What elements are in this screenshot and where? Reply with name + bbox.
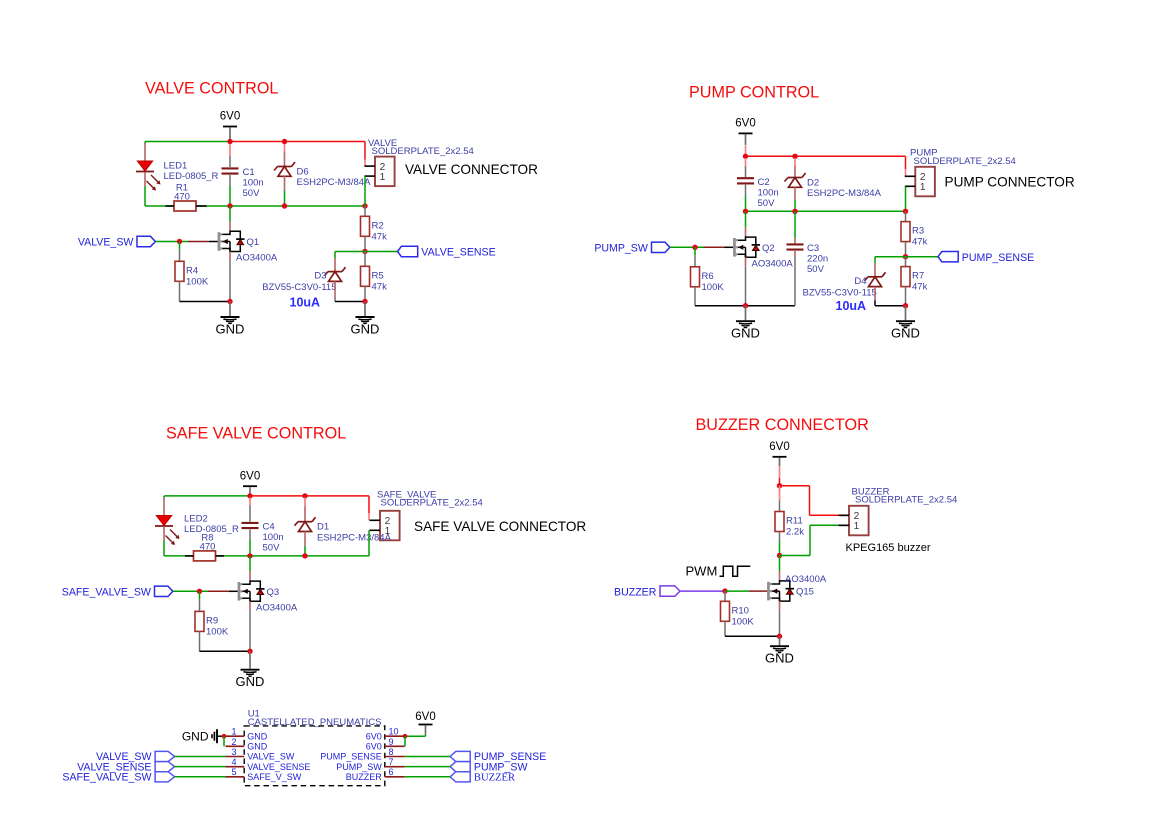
svg-text:50V: 50V (243, 188, 261, 199)
wire (875, 256, 906, 258)
LED LED2 (155, 514, 239, 546)
svg-text:AO3400A: AO3400A (785, 574, 827, 585)
resistor R3 (901, 222, 928, 248)
wire (724, 591, 726, 601)
diode D2 (785, 173, 882, 199)
wire (794, 158, 796, 166)
wire (405, 756, 451, 758)
wire (209, 241, 218, 243)
wire (229, 186, 231, 206)
svg-text:470: 470 (200, 541, 216, 552)
wire (725, 590, 749, 592)
net flag BUZZER (450, 772, 470, 782)
svg-text:100K: 100K (702, 282, 725, 293)
svg-text:100K: 100K (186, 276, 209, 287)
power 6V0 (769, 441, 789, 466)
transistor Q3 (238, 581, 298, 613)
wire (794, 166, 796, 178)
wire (304, 497, 306, 506)
wire (794, 238, 796, 244)
wire (749, 590, 767, 592)
wire (180, 301, 231, 303)
wire (405, 735, 426, 737)
wire (745, 196, 747, 211)
svg-text:C4: C4 (263, 522, 275, 533)
svg-text:6V0: 6V0 (735, 118, 755, 130)
svg-text:50V: 50V (758, 198, 776, 209)
IC U1 CASTELLATED_PNEUMATICS (231, 708, 398, 785)
wire (874, 263, 876, 277)
svg-text:SOLDERPLATE_2x2.54: SOLDERPLATE_2x2.54 (855, 495, 957, 506)
resistor R1 (174, 183, 196, 212)
wire (364, 236, 366, 251)
wire (304, 532, 306, 546)
svg-text:10: 10 (389, 727, 399, 737)
wire (156, 241, 188, 243)
wire (794, 256, 796, 306)
wire (874, 300, 876, 305)
wire (249, 601, 251, 610)
wire (405, 776, 451, 778)
svg-text:50V: 50V (263, 543, 281, 554)
svg-text:PUMP CONTROL: PUMP CONTROL (689, 84, 819, 102)
svg-text:GND: GND (247, 731, 268, 741)
wire (216, 555, 225, 557)
wire (779, 466, 781, 478)
wire (164, 495, 250, 497)
wire (874, 287, 876, 301)
wire (368, 530, 370, 556)
wire (334, 258, 336, 272)
svg-text:100K: 100K (206, 626, 229, 637)
wire (249, 541, 251, 556)
wire (145, 205, 365, 207)
svg-text:470: 470 (174, 192, 190, 203)
svg-text:VALVE_SW: VALVE_SW (247, 752, 295, 762)
junction (903, 209, 908, 214)
svg-text:Q2: Q2 (762, 243, 775, 254)
wire (188, 241, 209, 243)
connector PUMP (905, 148, 1016, 197)
wire (874, 257, 876, 263)
ground (891, 306, 920, 341)
wire (250, 495, 369, 497)
svg-text:47k: 47k (912, 282, 928, 293)
wire (229, 590, 238, 592)
wire (840, 524, 849, 526)
svg-text:ESH2PC-M3/84A: ESH2PC-M3/84A (297, 177, 372, 188)
resistor R11 (775, 512, 804, 538)
wire (694, 247, 696, 255)
power 6V0 (240, 470, 260, 494)
wire (364, 252, 366, 267)
wire (725, 246, 734, 248)
wire (144, 143, 146, 161)
svg-text:BUZZER: BUZZER (614, 586, 657, 598)
wire (779, 610, 781, 636)
svg-text:1: 1 (231, 727, 236, 737)
svg-text:R10: R10 (732, 605, 749, 616)
svg-text:Q15: Q15 (796, 587, 814, 598)
wire (404, 736, 406, 746)
wire (229, 156, 231, 167)
svg-text:PWM: PWM (686, 563, 718, 578)
resistor R7 (901, 267, 928, 293)
wire (199, 631, 201, 651)
junction (903, 303, 908, 308)
pin stub (226, 735, 245, 737)
net flag PUMP_SENSE (450, 751, 470, 761)
svg-text:GND: GND (247, 742, 268, 752)
junction (777, 553, 782, 558)
wire (185, 555, 194, 557)
wire (304, 546, 306, 556)
wire (229, 143, 231, 156)
junction (302, 493, 307, 498)
capacitor C2 (737, 177, 779, 209)
svg-text:7: 7 (389, 757, 394, 767)
wire (368, 513, 370, 520)
svg-text:GND: GND (891, 326, 920, 341)
junction (227, 203, 232, 208)
svg-text:10uA: 10uA (290, 296, 321, 310)
wire (745, 257, 747, 266)
resistor R8 (194, 532, 216, 561)
wire (779, 532, 781, 542)
svg-text:ESH2PC-M3/84A: ESH2PC-M3/84A (807, 188, 882, 199)
wire (163, 527, 165, 541)
wire (335, 251, 365, 253)
wire (368, 496, 370, 513)
junction (362, 299, 367, 304)
wire (810, 524, 840, 526)
svg-text:D6: D6 (297, 167, 309, 178)
wire (163, 496, 165, 498)
svg-text:SAFE VALVE CONNECTOR: SAFE VALVE CONNECTOR (414, 519, 586, 534)
junction (247, 553, 252, 558)
svg-text:VALVE CONNECTOR: VALVE CONNECTOR (405, 162, 538, 177)
svg-text:BUZZER: BUZZER (474, 773, 516, 784)
wire (229, 222, 231, 232)
wire (746, 155, 906, 157)
svg-text:BUZZER: BUZZER (346, 772, 383, 782)
wire (179, 281, 181, 301)
wire (780, 555, 811, 557)
wire (905, 156, 907, 169)
wire (905, 169, 907, 176)
junction (903, 254, 908, 259)
wire (284, 152, 286, 167)
wire (694, 287, 696, 306)
svg-text:SAFE_V_SW: SAFE_V_SW (247, 772, 302, 782)
junction (247, 649, 252, 654)
svg-text:100K: 100K (732, 616, 755, 627)
wire (875, 305, 906, 307)
pin stub (226, 756, 245, 758)
wire (810, 514, 841, 516)
svg-text:6V0: 6V0 (366, 742, 382, 752)
connector BUZZER (839, 486, 958, 535)
svg-text:Q1: Q1 (247, 237, 260, 248)
pin stub (385, 766, 405, 768)
wire (779, 486, 781, 501)
svg-text:GND: GND (351, 322, 380, 337)
net flag PUMP_SW (450, 762, 470, 772)
wire (745, 158, 747, 166)
junction (743, 154, 748, 159)
wire (794, 251, 796, 256)
wire (179, 242, 181, 250)
svg-text:BUZZER CONNECTOR: BUZZER CONNECTOR (696, 416, 869, 434)
net flag SAFE_VALVE_SW (62, 586, 173, 598)
svg-text:R2: R2 (372, 220, 384, 231)
svg-text:D2: D2 (807, 178, 819, 189)
wire (179, 249, 181, 261)
net flag VALVE_SW (78, 236, 156, 248)
resistor R10 (721, 601, 755, 627)
transistor Q1 (218, 231, 278, 263)
net flag VALVE_SENSE (398, 246, 496, 258)
wire (704, 246, 725, 248)
svg-text:SAFE_VALVE_SW: SAFE_VALVE_SW (62, 587, 151, 599)
junction (197, 589, 202, 594)
junction (302, 553, 307, 558)
junction (403, 734, 408, 739)
svg-text:R11: R11 (786, 516, 803, 527)
wire (229, 252, 231, 261)
wire (199, 591, 201, 599)
svg-text:SAFE VALVE CONTROL: SAFE VALVE CONTROL (166, 425, 346, 443)
wire (249, 556, 251, 571)
svg-text:R7: R7 (912, 271, 924, 282)
wire (173, 590, 208, 592)
wire (905, 257, 907, 267)
wire (229, 261, 231, 302)
wire (196, 205, 207, 207)
diode D1 (295, 517, 392, 543)
svg-text:KPEG165 buzzer: KPEG165 buzzer (846, 542, 931, 554)
svg-text:AO3400A: AO3400A (236, 253, 278, 264)
svg-text:R9: R9 (206, 615, 218, 626)
svg-text:AO3400A: AO3400A (752, 258, 794, 269)
junction (777, 483, 782, 488)
svg-text:R5: R5 (372, 270, 384, 281)
wire (335, 301, 365, 303)
pin stub (385, 756, 405, 758)
svg-text:C1: C1 (243, 167, 255, 178)
wire (779, 541, 781, 556)
junction (222, 734, 227, 739)
svg-text:3: 3 (231, 747, 236, 757)
ground (765, 636, 794, 665)
svg-text:C2: C2 (758, 177, 770, 188)
svg-text:2.2k: 2.2k (786, 527, 804, 538)
svg-text:D3: D3 (314, 271, 326, 282)
svg-text:R6: R6 (702, 271, 714, 282)
junction (227, 299, 232, 304)
wire (144, 172, 146, 186)
wire (779, 501, 781, 512)
diode D3 (262, 267, 345, 293)
wire (779, 556, 781, 572)
power 6V0 (415, 711, 435, 734)
svg-text:6V0: 6V0 (366, 731, 382, 741)
wire (780, 485, 810, 487)
svg-text:VALVE_SENSE: VALVE_SENSE (421, 247, 495, 259)
wire (725, 635, 780, 637)
svg-text:VALVE_SENSE: VALVE_SENSE (247, 762, 310, 772)
wire (364, 206, 366, 216)
ground (216, 302, 245, 337)
wire (809, 486, 811, 516)
wire (249, 571, 251, 581)
svg-text:VALVE CONTROL: VALVE CONTROL (145, 80, 278, 98)
net flag PUMP_SW (594, 242, 670, 254)
wire (840, 514, 849, 516)
wire (208, 590, 229, 592)
wire (906, 256, 939, 258)
svg-text:1: 1 (920, 182, 926, 193)
wire (144, 186, 146, 206)
wire (229, 175, 231, 186)
svg-text:6V0: 6V0 (415, 711, 435, 723)
transistor Q15 (767, 574, 827, 601)
net flag VALVE_SENSE (155, 762, 175, 772)
power 6V0 (220, 111, 240, 140)
svg-text:220n: 220n (807, 254, 828, 265)
wire (695, 305, 795, 307)
svg-text:47k: 47k (372, 231, 388, 242)
svg-text:GND: GND (182, 729, 209, 743)
wire (334, 298, 336, 302)
svg-text:R4: R4 (186, 265, 198, 276)
svg-text:6V0: 6V0 (220, 111, 240, 123)
svg-text:5: 5 (231, 767, 236, 777)
connector SAFE_VALVE (370, 489, 483, 540)
wire (779, 571, 781, 581)
wire (745, 227, 747, 237)
wire (745, 266, 747, 305)
svg-text:AO3400A: AO3400A (256, 602, 298, 613)
svg-text:D1: D1 (317, 522, 329, 533)
wire (229, 206, 231, 222)
svg-text:C3: C3 (807, 243, 819, 254)
svg-text:LED-0805_R: LED-0805_R (164, 171, 219, 182)
svg-text:6V0: 6V0 (240, 470, 260, 482)
net flag PUMP_SENSE (938, 252, 1034, 264)
svg-text:D4: D4 (854, 276, 866, 287)
wire (199, 599, 201, 611)
wire (249, 611, 251, 652)
svg-text:8: 8 (389, 747, 394, 757)
svg-text:GND: GND (765, 651, 794, 666)
svg-text:GND: GND (216, 322, 245, 337)
pin stub (226, 776, 245, 778)
svg-text:PUMP_SW: PUMP_SW (594, 243, 648, 255)
svg-text:PUMP CONNECTOR: PUMP CONNECTOR (945, 175, 1075, 190)
net flag SAFE_VALVE_SW (155, 772, 175, 782)
net flag BUZZER (614, 586, 680, 598)
wire (175, 776, 226, 778)
wire (745, 146, 747, 156)
wire (284, 143, 286, 152)
connector VALVE (365, 138, 474, 186)
svg-text:10uA: 10uA (836, 299, 867, 313)
pin stub (385, 745, 405, 747)
junction (692, 245, 697, 250)
svg-text:1: 1 (380, 172, 386, 183)
junction (792, 154, 797, 159)
wire (334, 252, 336, 259)
diode D4 (803, 272, 886, 298)
wire (200, 650, 251, 652)
junction (282, 139, 287, 144)
wire (694, 255, 696, 267)
wire (745, 166, 747, 177)
wire (405, 766, 451, 768)
wire (779, 601, 781, 610)
svg-text:BZV55-C3V0-115: BZV55-C3V0-115 (803, 287, 877, 298)
junction (362, 203, 367, 208)
wire (779, 478, 781, 486)
wire (164, 555, 369, 557)
wire (166, 205, 175, 207)
wire (365, 251, 398, 253)
wire (905, 287, 907, 306)
wire (304, 506, 306, 522)
wire (163, 498, 165, 516)
wire (724, 621, 726, 636)
svg-text:SOLDERPLATE_2x2.54: SOLDERPLATE_2x2.54 (914, 156, 1016, 167)
wire (745, 185, 747, 196)
wire (745, 211, 747, 227)
wire (794, 200, 796, 211)
wire (163, 541, 165, 556)
wire (223, 736, 225, 746)
junction (247, 493, 252, 498)
resistor R6 (691, 267, 725, 293)
wire (905, 242, 907, 257)
resistor R9 (195, 611, 229, 637)
svg-text:100n: 100n (758, 187, 779, 198)
wire (334, 282, 336, 298)
wire (249, 530, 251, 541)
svg-text:VALVE_SW: VALVE_SW (78, 237, 134, 249)
svg-text:LED2: LED2 (184, 514, 208, 525)
wire (175, 756, 226, 758)
wire (364, 160, 366, 167)
wire (230, 141, 365, 143)
power GND (182, 729, 226, 743)
svg-text:6V0: 6V0 (769, 441, 789, 453)
capacitor C3 (787, 243, 829, 275)
svg-text:1: 1 (854, 521, 860, 532)
LED LED1 (136, 160, 219, 190)
diode D6 (274, 162, 371, 188)
svg-text:PUMP_SENSE: PUMP_SENSE (320, 752, 382, 762)
wire (144, 142, 146, 144)
wire (249, 506, 251, 522)
svg-text:SAFE_VALVE_SW: SAFE_VALVE_SW (62, 772, 151, 784)
pin stub (385, 776, 405, 778)
wire (284, 176, 286, 190)
wire (364, 176, 366, 206)
pin stub (226, 766, 245, 768)
pin stub (226, 745, 245, 747)
svg-text:BZV55-C3V0-115: BZV55-C3V0-115 (262, 282, 336, 293)
wire (249, 497, 251, 505)
svg-text:LED1: LED1 (164, 160, 188, 171)
